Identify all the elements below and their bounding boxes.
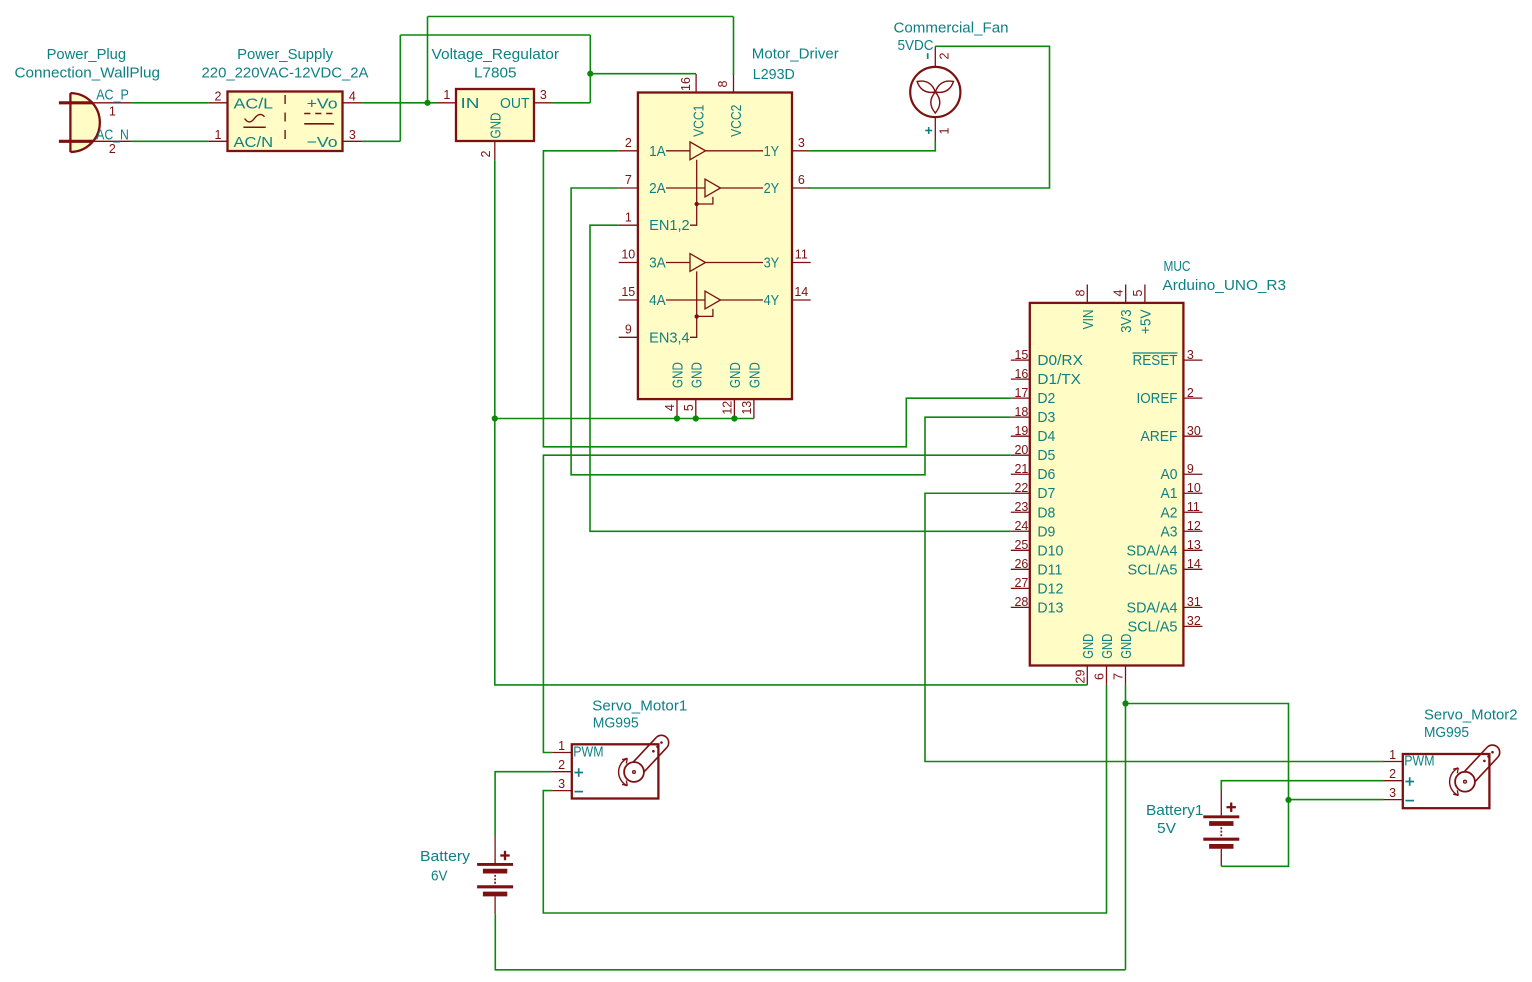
battery BT2 pin - stub [1220,849,1222,867]
power supply pin 1 AC/N [209,128,274,151]
svg-text:8: 8 [716,80,730,87]
svg-text:7: 7 [625,173,632,187]
svg-text:30: 30 [1187,424,1201,438]
svg-text:26: 26 [1014,557,1028,571]
battery BT2 pin + stub [1220,791,1222,816]
junction GND bus left [492,415,498,421]
motor driver enable net EN1,2 internal [690,160,713,226]
arduino pin 24 D9 [1011,519,1056,540]
svg-text:EN1,2: EN1,2 [649,217,690,234]
svg-text:D7: D7 [1037,485,1055,502]
svg-text:2: 2 [1187,386,1194,400]
svg-text:20: 20 [1014,443,1028,457]
svg-text:19: 19 [1014,424,1028,438]
svg-text:4: 4 [349,90,356,104]
fan M3 labels [894,19,1009,54]
wire servo 2 - to GND branch [1289,799,1384,801]
motor driver pin 16 VCC1 [679,74,707,137]
motor driver buffer A4 [666,291,763,309]
svg-text:2: 2 [479,150,493,157]
svg-text:3: 3 [349,128,356,142]
junction VCC1 branch [587,71,593,77]
svg-text:GND: GND [688,362,705,388]
wire D7 to servo 2 PWM [925,493,1384,761]
power supply PS1 body [228,92,343,152]
fan M3 body [910,67,960,117]
svg-text:IOREF: IOREF [1137,390,1178,407]
arduino pin 17 D2 [1011,386,1056,407]
svg-text:17: 17 [1014,386,1028,400]
motor driver pin 6 2Y [764,173,811,197]
svg-text:MG995: MG995 [1424,724,1469,741]
svg-text:MUC: MUC [1164,258,1191,275]
svg-text:AC_N: AC_N [96,126,129,143]
svg-text:2Y: 2Y [764,180,780,197]
svg-text:IN: IN [461,95,480,112]
svg-text:3: 3 [1389,786,1396,800]
battery BT1 pin + stub [494,836,496,863]
svg-text:GND: GND [670,362,687,388]
power plug pin 2 AC_N [93,126,132,156]
svg-text:10: 10 [1187,481,1201,495]
svg-text:28: 28 [1014,595,1028,609]
arduino pin 27 D12 [1011,576,1064,597]
arduino U3 body [1030,303,1184,666]
svg-text:AC_P: AC_P [96,86,129,103]
svg-text:RESET: RESET [1133,352,1178,369]
battery BT1 6V labels [420,848,471,885]
svg-text:Power_Supply: Power_Supply [237,46,333,63]
svg-text:+Vo: +Vo [307,95,338,112]
wire down to motor driver pin 8 VCC2 [733,17,735,76]
wire AC_N plug to power supply [132,140,209,142]
svg-text:4Y: 4Y [764,292,780,309]
svg-text:11: 11 [1187,500,1200,514]
arduino pin 31 SDA/A4 [1127,595,1203,616]
arduino pin 4 3V3 [1112,285,1136,333]
junction GND pin 4 [674,415,680,421]
svg-text:VCC1: VCC1 [690,105,707,137]
wire -Vo up [399,35,401,141]
svg-text:PWM: PWM [573,744,603,761]
svg-text:31: 31 [1187,595,1201,609]
svg-text:10: 10 [621,248,635,262]
svg-text:OUT: OUT [500,95,530,112]
arduino pin 28 D13 [1011,595,1064,616]
svg-text:AREF: AREF [1141,428,1178,445]
svg-text:D3: D3 [1037,409,1055,426]
servo motor M2 pin 2 + [1383,767,1414,786]
svg-text:3V3: 3V3 [1118,309,1135,333]
svg-text:21: 21 [1014,462,1028,476]
svg-text:3: 3 [558,777,565,791]
svg-text:29: 29 [1073,670,1087,684]
svg-text:2A: 2A [649,180,666,197]
svg-text:2: 2 [109,142,116,156]
svg-text:4: 4 [663,404,677,411]
svg-text:1: 1 [443,88,450,102]
motor driver pin 8 VCC2 [716,74,745,137]
svg-text:2: 2 [937,52,951,59]
svg-text:SDA/A4: SDA/A4 [1127,542,1178,559]
svg-text:Servo_Motor1: Servo_Motor1 [592,698,687,715]
svg-text:D4: D4 [1037,428,1055,445]
svg-text:A3: A3 [1161,523,1178,540]
wire node to motor driver pin 16 VCC1 [590,73,696,75]
arduino pin 22 D7 [1011,481,1056,502]
battery BT1 pin - stub [494,896,496,914]
svg-text:7: 7 [1112,673,1126,680]
servo motor M1 labels [592,698,687,732]
svg-text:EN3,4: EN3,4 [649,329,690,346]
arduino pin 3 RESET [1133,348,1203,369]
svg-text:4A: 4A [649,292,666,309]
power supply pin 4 +Vo [307,90,363,113]
power supply pin 3 -Vo [307,128,363,151]
svg-text:D11: D11 [1037,561,1062,578]
motor driver pin 2 1A [619,136,666,160]
power plug P1 body [70,93,99,152]
svg-text:L293D: L293D [753,66,795,83]
wire GND branch to battery BT2 - [1126,704,1289,867]
svg-text:9: 9 [625,323,632,337]
motor driver pin 7 2A [619,173,666,197]
wire +Vo to regulator IN [362,102,437,104]
svg-text:5: 5 [682,404,696,411]
svg-text:Battery: Battery [420,848,471,865]
svg-text:4: 4 [1112,289,1126,296]
voltage regulator pin 2 GND [479,112,504,160]
svg-text:Motor_Driver: Motor_Driver [752,46,839,63]
svg-text:Battery1: Battery1 [1146,802,1204,819]
svg-text:1Y: 1Y [764,143,780,160]
power plug pin 1 AC_P [93,86,132,118]
svg-text:6: 6 [1093,673,1107,680]
wire servo 1 - to arduino GND pin 6 [543,685,1106,913]
svg-text:D12: D12 [1037,580,1063,597]
power supply pin 2 AC/L [209,90,274,113]
wire arduino GND pin 7 down [1125,685,1127,970]
svg-text:25: 25 [1014,538,1028,552]
arduino pin 23 D8 [1011,500,1056,521]
motor driver pin 1 EN1,2 [619,210,690,234]
svg-text:5VDC: 5VDC [898,37,934,54]
svg-text:1: 1 [625,210,632,224]
svg-text:16: 16 [679,77,693,91]
wire servo 1 + to battery BT1 + [495,772,552,836]
motor driver buffer A1 [666,142,763,160]
svg-text:Voltage_Regulator: Voltage_Regulator [432,46,560,63]
svg-text:18: 18 [1014,405,1028,419]
servo motor M2 body [1403,745,1500,808]
arduino pin 16 D1/TX [1011,367,1081,388]
voltage regulator pin 3 OUT [500,88,553,112]
svg-text:1: 1 [937,127,951,134]
motor driver pin 4 GND [663,362,686,419]
svg-text:12: 12 [1187,519,1201,533]
motor driver pin 14 4Y [764,285,811,309]
wire node x590 vertical to OUT row [589,35,591,103]
motor driver pin 10 3A [619,248,666,272]
arduino pin 5 +5V [1131,285,1155,335]
svg-text:27: 27 [1014,576,1028,590]
svg-text:Servo_Motor2: Servo_Motor2 [1424,707,1518,724]
wire D9 to EN1,2 [590,225,1011,531]
arduino pin 10 A1 [1161,481,1203,502]
arduino pin 6 GND [1093,634,1117,685]
motor driver buffer A3 [666,254,763,272]
voltage regulator U2 body [456,89,534,141]
svg-text:5: 5 [1131,289,1145,296]
wire 2Y to fan pin 2 [809,46,1050,188]
arduino pin 18 D3 [1011,405,1056,426]
wire regulator OUT to node x590 [553,102,591,104]
svg-text:D0/RX: D0/RX [1037,352,1083,369]
arduino pin 14 SCL/A5 [1128,557,1203,578]
motor driver pin 15 4A [619,285,666,309]
fan pin 1 bottom with + mark [925,117,951,141]
svg-text:Commercial_Fan: Commercial_Fan [894,19,1009,36]
svg-text:2: 2 [558,758,565,772]
svg-text:16: 16 [1014,367,1028,381]
wire D2 to 1A [543,151,1010,447]
svg-text:11: 11 [795,248,808,262]
svg-text:3: 3 [798,136,805,150]
wire battery BT1 - to GND rail [495,914,1125,970]
svg-text:SDA/A4: SDA/A4 [1127,599,1178,616]
wire GND bus under motor driver [495,418,754,420]
svg-text:3: 3 [1187,348,1194,362]
svg-text:3A: 3A [649,255,666,272]
svg-text:15: 15 [1014,348,1028,362]
svg-text:1: 1 [215,128,222,142]
svg-text:24: 24 [1014,519,1028,533]
svg-text:SCL/A5: SCL/A5 [1128,618,1178,635]
svg-text:Connection_WallPlug: Connection_WallPlug [15,65,161,82]
junction GND pin 5 [693,415,699,421]
svg-text:220_220VAC-12VDC_2A: 220_220VAC-12VDC_2A [202,65,369,82]
svg-text:D10: D10 [1037,542,1063,559]
svg-text:14: 14 [1187,557,1201,571]
svg-text:Arduino_UNO_R3: Arduino_UNO_R3 [1163,277,1287,294]
svg-text:+5V: +5V [1137,309,1154,334]
svg-text:SCL/A5: SCL/A5 [1128,561,1178,578]
svg-text:VIN: VIN [1080,309,1097,329]
fan pin 2 top [928,46,952,67]
wire regulator GND down to GND bus and to arduino pin 29 [495,160,1088,685]
svg-text:−Vo: −Vo [307,134,338,151]
battery BT2 5V labels [1146,802,1204,837]
wire D3 to 2A [571,188,1011,475]
battery BT1 6V body [477,851,513,894]
wire -Vo right [362,140,400,142]
servo motor M2 labels [1424,707,1518,742]
junction GND pin 12 [731,415,737,421]
power supply PS1 labels [202,46,369,82]
motor driver pin 12 GND [721,362,744,419]
svg-text:23: 23 [1014,500,1028,514]
svg-text:AC/L: AC/L [234,95,274,112]
svg-text:1: 1 [558,739,565,753]
servo motor M1 pin 3 - [552,777,583,792]
svg-text:6V: 6V [431,868,448,885]
svg-text:GND: GND [1118,634,1135,659]
motor driver pin 9 EN3,4 [619,323,690,347]
arduino pin 32 SCL/A5 [1128,614,1203,635]
wire AC_P plug to power supply [132,102,209,104]
arduino pin 2 IOREF [1137,386,1203,407]
svg-text:PWM: PWM [1404,753,1434,770]
svg-text:D13: D13 [1037,599,1063,616]
wire +12V up from junction to top rail [427,17,429,103]
battery BT2 5V body [1203,803,1239,847]
arduino pin 8 VIN [1073,285,1097,330]
svg-text:L7805: L7805 [474,65,517,82]
power plug P1 Connection_WallPlug labels [15,46,161,82]
svg-text:32: 32 [1187,614,1201,628]
svg-text:D8: D8 [1037,504,1055,521]
wire battery BT2 + to servo 2 + [1221,781,1384,791]
svg-text:3Y: 3Y [764,255,780,272]
svg-text:D6: D6 [1037,466,1055,483]
svg-text:12: 12 [721,401,735,415]
arduino pin 13 SDA/A4 [1127,538,1203,559]
junction servo 2 - branch [1285,797,1291,803]
motor driver U1 body [638,93,792,400]
svg-text:GND: GND [487,112,504,138]
svg-text:2: 2 [215,90,222,104]
motor driver U1 labels [752,46,839,84]
motor driver pin 3 1Y [764,136,811,160]
svg-text:D1/TX: D1/TX [1037,371,1081,388]
svg-text:A1: A1 [1161,485,1178,502]
wire top rail +12V to VCC2 [428,16,734,18]
motor driver buffer A2 [666,179,763,197]
wire 1Y to fan pin 1 [809,141,936,151]
arduino pin 30 AREF [1141,424,1203,445]
svg-text:22: 22 [1014,481,1028,495]
arduino pin 7 GND [1112,634,1136,685]
voltage regulator U2 labels [432,46,560,82]
servo motor M1 pin 1 PWM [552,739,603,761]
arduino pin 25 D10 [1011,538,1064,559]
voltage regulator pin 1 IN [438,88,480,112]
wire -Vo horizontal to node x590 [400,34,590,36]
svg-text:14: 14 [794,285,808,299]
servo motor M2 pin 3 - [1383,786,1414,801]
wire D5 to servo 1 PWM [543,455,1010,752]
arduino pin 21 D6 [1011,462,1056,483]
arduino U3 labels [1163,258,1287,294]
svg-text:15: 15 [621,285,635,299]
svg-text:D9: D9 [1037,523,1055,540]
svg-text:A0: A0 [1161,466,1178,483]
servo motor M1 pin 2 + [552,758,583,777]
junction +Vo/IN/top rail [424,100,430,106]
svg-text:MG995: MG995 [593,715,639,732]
svg-text:VCC2: VCC2 [728,105,745,137]
svg-text:GND: GND [746,362,763,388]
svg-text:1: 1 [109,105,116,119]
motor driver pin 11 3Y [764,248,811,272]
svg-text:3: 3 [540,88,547,102]
svg-text:6: 6 [798,173,805,187]
motor driver enable net EN3,4 internal [690,271,713,337]
svg-text:GND: GND [1099,634,1116,659]
svg-text:9: 9 [1187,462,1194,476]
svg-text:5V: 5V [1157,820,1176,837]
svg-text:2: 2 [625,136,632,150]
junction GND pin 7 branch [1122,700,1128,706]
motor driver pin 13 GND [740,362,763,419]
arduino pin 9 A0 [1161,462,1203,483]
svg-text:13: 13 [740,401,754,415]
arduino pin 29 GND [1073,634,1097,685]
arduino pin 26 D11 [1011,557,1063,578]
svg-text:8: 8 [1073,289,1087,296]
svg-text:1A: 1A [649,143,666,160]
power plug prong pin AC_P [59,101,93,104]
svg-text:AC/N: AC/N [234,134,274,151]
svg-text:D5: D5 [1037,447,1055,464]
arduino pin 11 A2 [1161,500,1203,521]
svg-text:A2: A2 [1161,504,1178,521]
power plug prong pin AC_N [59,140,93,143]
svg-text:GND: GND [1080,634,1097,659]
svg-text:D2: D2 [1037,390,1055,407]
servo motor M1 body [572,735,669,798]
svg-text:1: 1 [1389,748,1396,762]
svg-text:13: 13 [1187,538,1201,552]
svg-text:2: 2 [1389,767,1396,781]
servo motor M2 pin 1 PWM [1383,748,1434,770]
svg-text:GND: GND [727,362,744,388]
arduino pin 12 A3 [1161,519,1203,540]
arduino pin 20 D5 [1011,443,1056,464]
motor driver pin 5 GND [682,362,705,419]
svg-text:Power_Plug: Power_Plug [47,46,127,63]
arduino pin 15 D0/RX [1011,348,1083,369]
arduino pin 19 D4 [1011,424,1056,445]
